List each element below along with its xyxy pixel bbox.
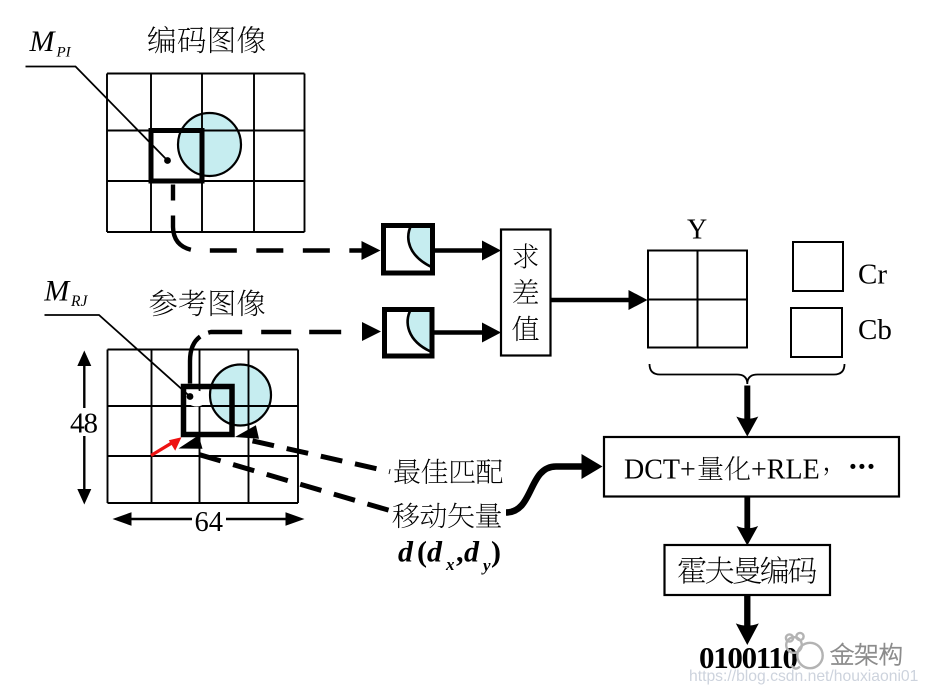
svg-text:64: 64 [195,507,224,538]
svg-text:d: d [464,536,480,569]
svg-text:Cr: Cr [858,259,887,291]
svg-text:d: d [427,536,443,569]
svg-text:Y: Y [687,215,707,246]
svg-text:M: M [43,275,71,308]
svg-text:y: y [481,556,491,575]
svg-text:,: , [456,536,464,569]
svg-text:DCT+: DCT+ [624,455,696,486]
svg-text:https://blog.csdn.net/houxiaon: https://blog.csdn.net/houxiaoni01 [689,668,918,685]
svg-text:): ) [491,536,501,569]
svg-text:M: M [29,25,57,58]
svg-text:PI: PI [56,45,72,61]
svg-text:Cb: Cb [858,314,892,346]
svg-text:x: x [445,555,455,574]
svg-text:(: ( [417,536,427,569]
svg-text:48: 48 [70,408,98,440]
svg-text:+RLE: +RLE [751,455,820,486]
svg-text:RJ: RJ [70,293,88,310]
svg-text:d: d [398,536,414,569]
